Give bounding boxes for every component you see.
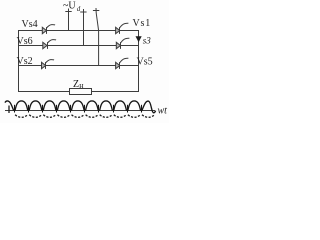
supply phase lead C with arrow: [93, 8, 99, 66]
svg-text:Vs5: Vs5: [137, 57, 153, 68]
thyristor VS3: [116, 38, 129, 49]
waveform commutation ticks: [15, 105, 142, 113]
wire left bus: [18, 30, 20, 92]
thyristor VS5: [116, 58, 129, 69]
thyristor VS2: [42, 60, 55, 69]
wire phase row 3: [18, 65, 139, 67]
thyristor VS4: [42, 25, 55, 34]
wire phase row 2: [18, 45, 139, 47]
svg-text:Vs2: Vs2: [17, 56, 33, 67]
load resistor ZH box: [70, 89, 92, 95]
svg-text:Vs4: Vs4: [22, 19, 38, 30]
thyristor VS1: [116, 23, 129, 34]
wire right bus: [138, 30, 140, 92]
supply phase lead A with arrow: [65, 9, 71, 31]
label ~Ud supply voltage: [63, 1, 81, 14]
wire bottom rail right: [92, 91, 140, 93]
svg-text:~U: ~U: [63, 1, 76, 12]
current arrow on right bus: [136, 36, 142, 42]
wire phase row 1: [18, 30, 139, 32]
svg-text:н: н: [79, 81, 84, 90]
thyristor VS6: [43, 40, 56, 49]
svg-text:s3: s3: [143, 35, 152, 45]
wire bottom rail left: [18, 91, 70, 93]
svg-text:Z: Z: [73, 79, 79, 90]
svg-text:wt: wt: [158, 106, 168, 117]
waveform axis wt: [5, 110, 155, 112]
svg-text:Vs1: Vs1: [133, 18, 152, 29]
waveform origin tick: [8, 106, 10, 114]
waveform dashed negative half-waves: [15, 115, 155, 118]
waveform solid sine humps: [5, 101, 156, 113]
label ZH: [73, 79, 84, 90]
supply phase lead B with arrow: [80, 9, 86, 46]
svg-text:Vs6: Vs6: [17, 36, 33, 47]
